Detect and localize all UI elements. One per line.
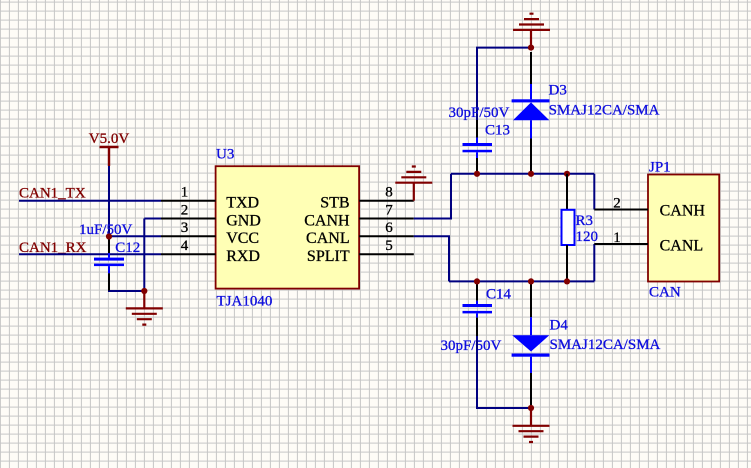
svg-text:JP1: JP1: [649, 160, 671, 176]
svg-text:120: 120: [576, 229, 599, 245]
svg-text:CAN1_TX: CAN1_TX: [19, 185, 86, 201]
pin 2 GND: [161, 218, 216, 220]
svg-text:CANL: CANL: [660, 238, 704, 255]
pin 7 CANH: [359, 218, 414, 220]
svg-text:4: 4: [181, 238, 189, 254]
svg-text:1uF/50V: 1uF/50V: [79, 222, 133, 238]
svg-text:CAN: CAN: [649, 285, 681, 301]
pin 1 CANL: [594, 243, 648, 245]
diode D3: [512, 52, 550, 174]
svg-text:CANL: CANL: [306, 230, 350, 247]
wire bottom bus CANL: [449, 280, 594, 282]
pin 2 CANH: [594, 209, 648, 211]
wire V5.0V rail vertical: [108, 166, 110, 238]
pin 3 VCC: [161, 235, 216, 237]
wire top ground run: [477, 48, 531, 120]
svg-text:C13: C13: [485, 123, 510, 139]
junction D4/bottom bus: [528, 278, 534, 284]
ground at STB pin: [395, 167, 432, 201]
svg-text:2: 2: [613, 195, 621, 211]
wire GND stub to U3 pin 2: [144, 218, 161, 220]
junction bottom ground: [528, 405, 534, 411]
wire right bottom to JP1 pin 1: [593, 244, 595, 281]
wire top bus CANH: [451, 173, 594, 175]
ground bottom: [513, 408, 550, 442]
svg-text:VCC: VCC: [226, 230, 259, 247]
pin 4 RXD: [161, 253, 216, 255]
pin 6 CANL: [359, 235, 414, 237]
wire CANH from pin 7 to bus: [414, 174, 451, 219]
junction C13/top bus: [474, 171, 480, 177]
svg-text:30pF/50V: 30pF/50V: [449, 105, 510, 121]
svg-text:CANH: CANH: [304, 212, 350, 229]
junction D3/top bus: [528, 171, 534, 177]
svg-text:1: 1: [613, 230, 621, 246]
svg-text:8: 8: [385, 185, 393, 201]
svg-text:V5.0V: V5.0V: [89, 131, 130, 147]
ground top (inverted): [513, 14, 550, 48]
junction R3/bottom bus: [564, 278, 570, 284]
svg-text:SPLIT: SPLIT: [307, 248, 350, 265]
svg-text:D4: D4: [550, 318, 569, 334]
wire CAN1_RX: [19, 253, 161, 255]
svg-text:R3: R3: [576, 213, 594, 229]
pin 8 STB: [359, 200, 414, 202]
capacitor C12: [94, 253, 124, 291]
power symbol V5.0V: [89, 131, 130, 166]
svg-text:C14: C14: [486, 287, 512, 303]
capacitor C13: [463, 120, 493, 174]
svg-text:5: 5: [385, 238, 393, 254]
pin 5 SPLIT: [359, 253, 414, 255]
ground below C12: [126, 291, 163, 325]
svg-text:CANH: CANH: [660, 203, 706, 220]
junction top ground: [528, 45, 534, 51]
svg-text:30pF/50V: 30pF/50V: [441, 338, 502, 354]
pin 1 TXD: [161, 200, 216, 202]
svg-text:SMAJ12CA/SMA: SMAJ12CA/SMA: [550, 337, 661, 353]
svg-text:C12: C12: [115, 240, 140, 256]
diode D4: [512, 281, 550, 407]
svg-text:7: 7: [385, 202, 393, 218]
svg-text:TJA1040: TJA1040: [217, 294, 273, 310]
svg-text:U3: U3: [216, 147, 234, 163]
junction V5.0V/VCC: [106, 233, 112, 239]
connector JP1: [648, 160, 719, 301]
svg-text:6: 6: [385, 220, 393, 236]
wire CANL from pin 6 to bus: [414, 236, 449, 281]
svg-text:1: 1: [181, 185, 189, 201]
svg-text:STB: STB: [320, 195, 349, 212]
svg-text:3: 3: [181, 220, 189, 236]
wire CAN1_TX: [19, 200, 161, 202]
IC U3 TJA1040: [216, 147, 360, 310]
wire GND vertical from U3 pin 2: [143, 219, 145, 292]
wire V5.0V rail to C12 (black segment): [108, 238, 110, 253]
junction C12/GND: [141, 288, 147, 294]
wire right top to JP1 pin 2: [593, 174, 595, 210]
wire C12 bottom to ground junction: [109, 273, 144, 291]
wire C14 to bottom ground: [477, 336, 531, 408]
capacitor C14: [463, 281, 493, 336]
svg-text:RXD: RXD: [226, 248, 260, 265]
svg-text:D3: D3: [549, 83, 567, 99]
resistor R3: [562, 174, 575, 282]
svg-text:TXD: TXD: [226, 195, 259, 212]
wire VCC to U3 pin 3: [109, 235, 161, 237]
junction R3/top bus: [564, 171, 570, 177]
svg-text:2: 2: [181, 202, 189, 218]
svg-text:SMAJ12CA/SMA: SMAJ12CA/SMA: [549, 102, 660, 118]
junction C14/bottom bus: [474, 278, 480, 284]
svg-text:GND: GND: [226, 212, 261, 229]
